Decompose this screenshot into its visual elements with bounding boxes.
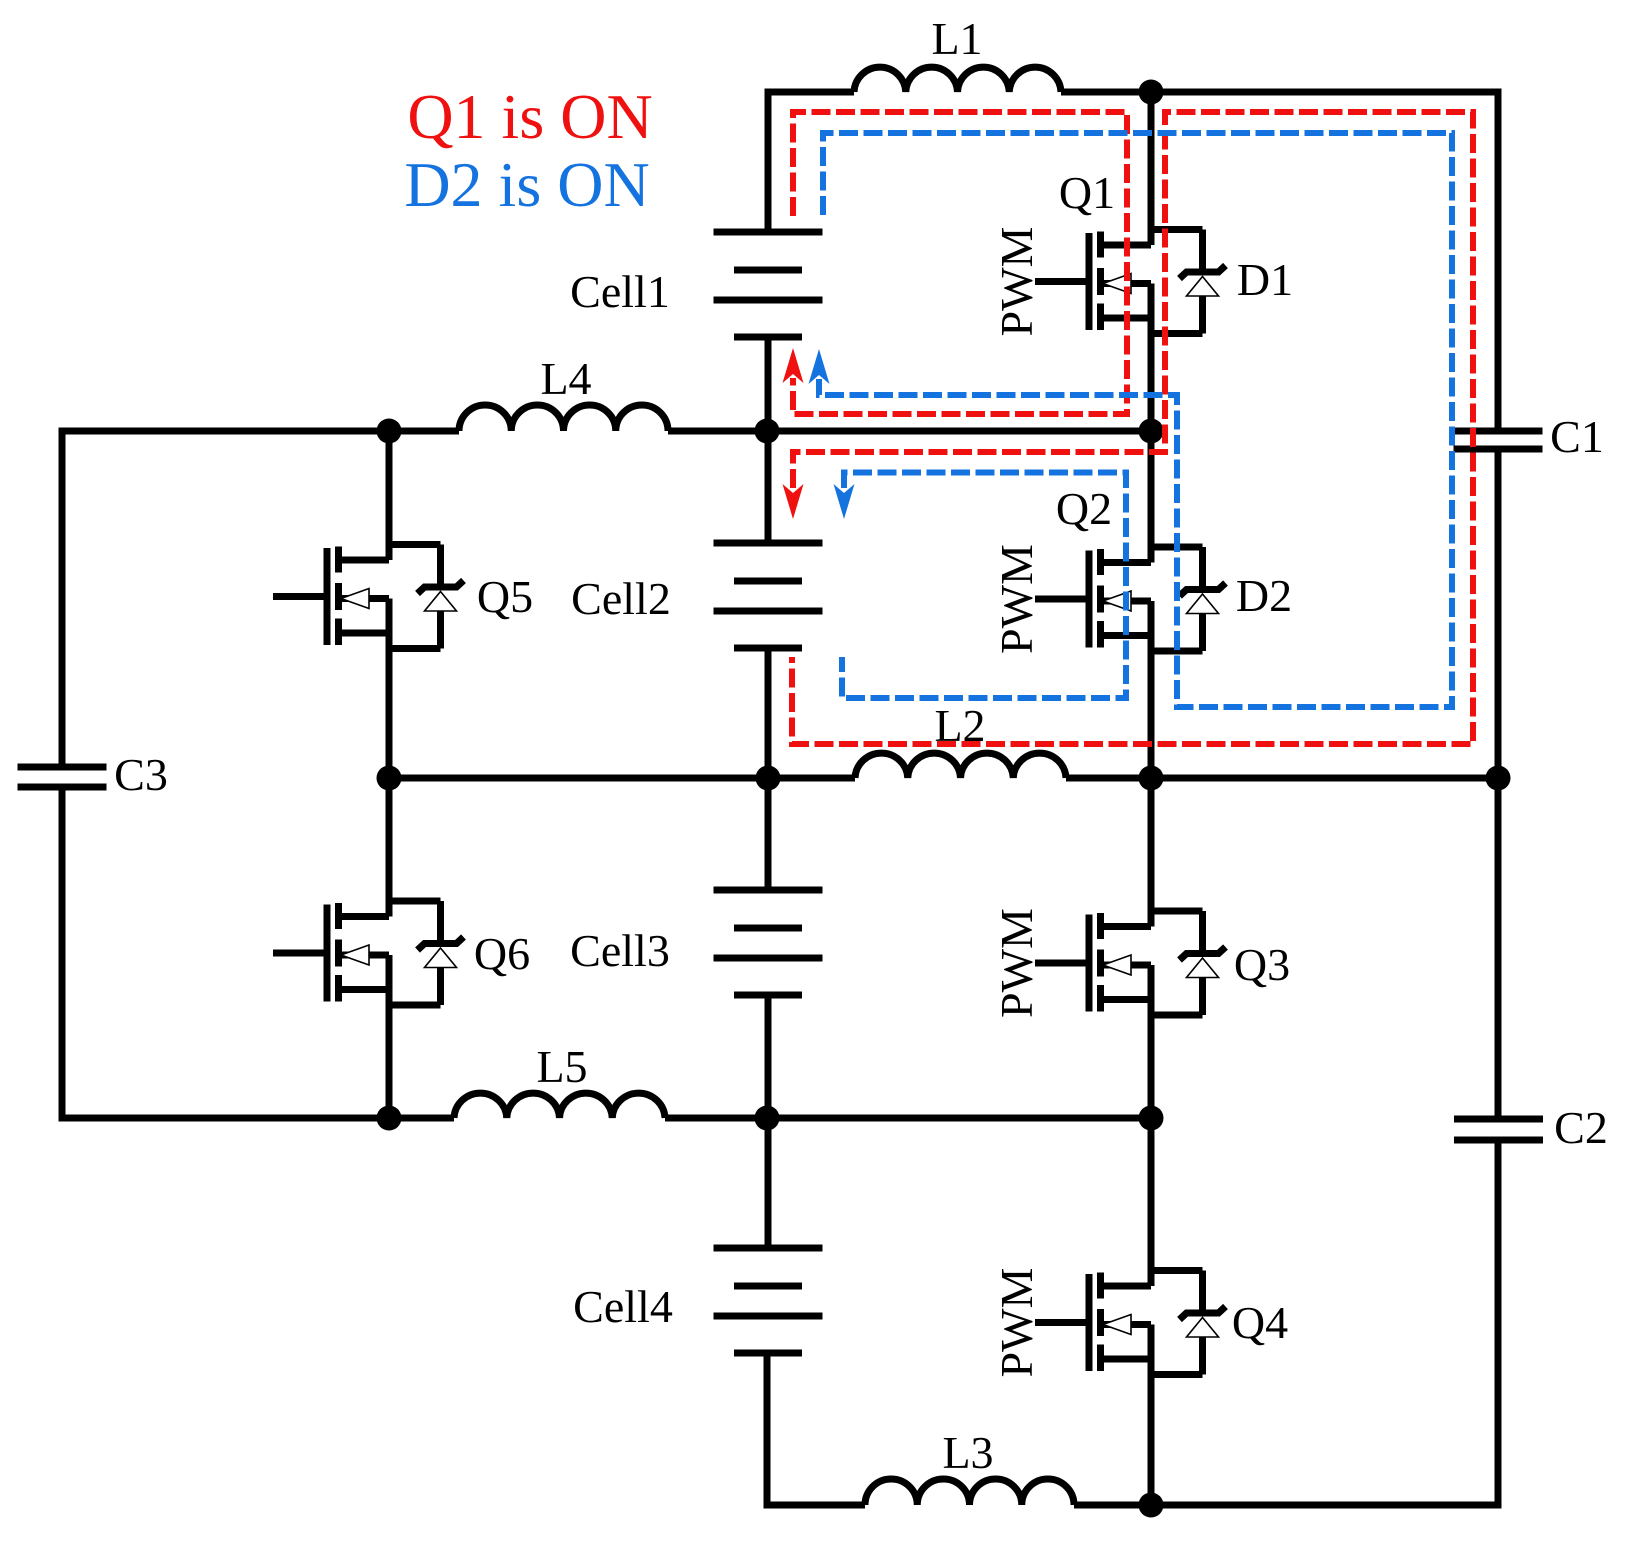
wire: cell column Cell2 bottom to L2 node [765, 648, 772, 778]
junction node: L2 row / Q5 column [377, 766, 402, 791]
battery Cell3 [570, 890, 822, 995]
wire: red dashed loop (Q1 ON) inner path Cell1-L1-Q1 [793, 112, 1127, 414]
junction node: bottom row / Q column [1139, 1493, 1164, 1518]
svg-text:L3: L3 [942, 1427, 993, 1478]
capacitor C1 [1454, 411, 1604, 462]
svg-text:Q5: Q5 [477, 571, 533, 622]
wire: cell column L2 node to Cell3 top [765, 778, 772, 890]
wire: bottom row left of L3, corner up to Cell4 [767, 1353, 865, 1505]
svg-text:Cell3: Cell3 [570, 925, 670, 976]
transistor Q5 (with body diode) [273, 545, 533, 649]
svg-text:C1: C1 [1550, 411, 1604, 462]
svg-text:D2 is ON: D2 is ON [404, 149, 649, 220]
wire: Q column L4 node to Q2 drain [1148, 431, 1155, 563]
junction node: L4 row / Q5 column [377, 419, 402, 444]
wire: Q column Q2 source to L2 node [1148, 601, 1155, 778]
svg-text:D2: D2 [1236, 570, 1292, 621]
wire: blue dashed loop (D2 ON) outer path through C1 [819, 133, 1452, 707]
diode D1 [1151, 230, 1293, 334]
battery Cell4 [573, 1248, 822, 1353]
inductor L1 [854, 13, 1061, 92]
junction node: L2 row / right rail [1486, 766, 1511, 791]
wire: cell column L5 node to Cell4 top [765, 1118, 772, 1248]
wire: Q column Q3 source to L5 node [1148, 965, 1155, 1118]
wire: Q5 column L4 node to Q5 drain [386, 431, 393, 560]
wire: left rail below C3, corner to L5 row [62, 787, 454, 1118]
transistor Q6 (with body diode) [273, 901, 530, 1005]
inductor L5 [454, 1041, 665, 1118]
svg-text:PWM: PWM [991, 544, 1042, 654]
svg-text:PWM: PWM [991, 1268, 1042, 1378]
svg-text:PWM: PWM [991, 908, 1042, 1018]
svg-text:PWM: PWM [991, 227, 1042, 337]
wire: top row right from L1 to right rail, corner down [1061, 92, 1498, 431]
transistor Q2 [1035, 483, 1151, 648]
wire: Q column L2 node to Q3 drain [1148, 778, 1155, 927]
wire: red dashed loop (Q1 ON) outer path through C1 and Cell2 [792, 112, 1473, 744]
label: D2 is ON (blue) [404, 149, 649, 220]
wire: blue dashed loop (D2 ON) inner path Cell2-D2 [842, 473, 1126, 699]
svg-text:L1: L1 [931, 13, 982, 64]
svg-text:L5: L5 [536, 1041, 587, 1092]
svg-text:Cell2: Cell2 [571, 573, 671, 624]
svg-text:Q4: Q4 [1232, 1297, 1288, 1348]
inductor L4 [459, 353, 668, 431]
wire: Q6 column Q6 source to L5 node [386, 955, 393, 1118]
inductor L3 [865, 1427, 1074, 1505]
battery Cell1 [570, 232, 822, 337]
transistor Q3 (with body diode) [1035, 911, 1290, 1015]
wire: Q column L5 node to Q4 drain [1148, 1118, 1155, 1286]
wire: right rail C1 bottom to C2 top [1495, 449, 1502, 1119]
wire: L2 row from L2 to right rail [1066, 775, 1498, 782]
wire: L5 row from L5 to Q column [665, 1115, 1151, 1122]
label PWM (Q2 gate) [991, 544, 1042, 654]
blue current arrow up at Cell1 bottom [809, 349, 830, 384]
capacitor C3 [18, 749, 168, 800]
transistor Q4 (with body diode) [1035, 1271, 1288, 1375]
svg-text:Q6: Q6 [474, 928, 530, 979]
junction node: L5 row / cell column [755, 1106, 780, 1131]
wire: Q column Q1 source to L4 node [1148, 284, 1155, 432]
label PWM (Q3 gate) [991, 908, 1042, 1018]
junction node: L5 row / Q6 column [377, 1106, 402, 1131]
battery Cell2 [571, 543, 822, 648]
label: Q1 is ON (red) [407, 81, 652, 152]
svg-text:C3: C3 [114, 749, 168, 800]
transistor Q1 [1035, 167, 1151, 330]
junction node: L4 row / cell column [755, 419, 780, 444]
wire: cell column L4 node to Cell2 top [765, 431, 772, 543]
label PWM (Q4 gate) [991, 1268, 1042, 1378]
wire: cell column Cell1 bottom to L4 node [765, 337, 772, 431]
wire: Q column Q4 source to bottom node [1148, 1325, 1155, 1506]
junction node: L4 row / Q column [1139, 419, 1164, 444]
wire: right rail below C2, corner to bottom row [1074, 1140, 1498, 1505]
label PWM (Q1 gate) [991, 227, 1042, 337]
svg-text:Q2: Q2 [1056, 483, 1112, 534]
svg-text:Cell1: Cell1 [570, 266, 670, 317]
wire: Q column top node to Q1 drain [1148, 92, 1155, 245]
wire: L4 row from left rail to L4 [62, 431, 459, 767]
capacitor C2 [1454, 1102, 1608, 1153]
svg-text:D1: D1 [1237, 254, 1293, 305]
svg-text:L4: L4 [540, 353, 591, 404]
svg-text:Q1 is ON: Q1 is ON [407, 81, 652, 152]
red current arrow down at Cell2 top [783, 484, 804, 519]
junction node: L2 row / Q column [1139, 766, 1164, 791]
blue current arrow down at Cell2 top [834, 484, 855, 519]
wire: L4 row from L4 to Q column [668, 428, 1151, 435]
wire: L2 row from Q5 column to L2 [389, 775, 855, 782]
junction node: top row / Q column [1139, 80, 1164, 105]
svg-text:Q1: Q1 [1059, 167, 1115, 218]
red current arrow up at Cell1 bottom [783, 348, 804, 383]
wire: Q5 column Q5 source to L2 node [386, 599, 393, 779]
svg-text:Cell4: Cell4 [573, 1281, 673, 1332]
svg-text:Q3: Q3 [1234, 939, 1290, 990]
svg-text:C2: C2 [1554, 1102, 1608, 1153]
wire: cell column Cell3 bottom to L5 node [765, 995, 772, 1118]
inductor L2 [855, 700, 1066, 778]
wire: top row left + corner down to Cell1 [768, 92, 854, 232]
wire: Q6 column L2 node to Q6 drain [386, 778, 393, 917]
junction node: L5 row / Q column [1139, 1106, 1164, 1131]
junction node: L2 row / cell column [756, 766, 781, 791]
diode D2 [1151, 547, 1292, 651]
